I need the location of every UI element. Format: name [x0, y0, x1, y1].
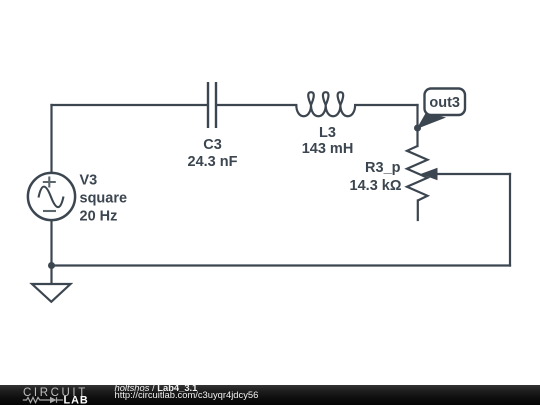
svg-text:20 Hz: 20 Hz [80, 209, 118, 225]
wire top rail left segment (to C3 left plate) [52, 104, 208, 106]
CircuitLab logo wordmark [0, 385, 110, 405]
svg-text:out3: out3 [429, 95, 460, 111]
footer bar [0, 385, 540, 405]
logo resistor-diode glyph [23, 397, 63, 403]
svg-text:143 mH: 143 mH [302, 141, 354, 157]
wire right vertical (top rail down to R3_p) [416, 105, 418, 146]
inductor L3 [296, 92, 355, 116]
svg-text:24.3 nF: 24.3 nF [188, 154, 238, 170]
svg-text:C3: C3 [203, 137, 222, 153]
wire top-left vertical (V3 plus terminal to top rail) [50, 105, 52, 174]
footer credit text [115, 384, 259, 400]
node out3 callout tail [417, 113, 447, 130]
svg-text:R3_p: R3_p [365, 160, 401, 176]
voltage source V3 plus sign [43, 177, 56, 188]
ground [32, 284, 71, 302]
wire wiper horizontal (R3_p wiper to right rail) [435, 173, 510, 175]
potentiometer R3_p zigzag body [407, 146, 428, 201]
node out3 junction dot [414, 125, 421, 132]
svg-text:LAB: LAB [64, 395, 89, 405]
wire ground stub [50, 266, 52, 285]
wire top rail right segment (L3 to out3 corner) [355, 104, 417, 106]
voltage source V3 minus sign [43, 210, 56, 212]
svg-text:14.3 kΩ: 14.3 kΩ [350, 178, 402, 194]
voltage source V3 sine glyph [39, 187, 64, 208]
wire right rail vertical [509, 174, 511, 266]
wire top rail middle segment (C3 to L3) [217, 104, 297, 106]
svg-text:square: square [80, 191, 128, 207]
wire bottom rail [52, 264, 511, 266]
potentiometer R3_p bottom stub [417, 201, 419, 221]
svg-text:L3: L3 [319, 125, 336, 141]
svg-text:V3: V3 [80, 173, 98, 189]
capacitor C3 [208, 82, 216, 128]
voltage source V3 circle [28, 173, 75, 220]
node junction dot at V3/ground [48, 262, 55, 269]
node out3 callout box [425, 89, 466, 116]
potentiometer R3_p wiper arrowhead [421, 168, 438, 180]
wire V3 minus terminal to bottom rail [50, 220, 52, 266]
